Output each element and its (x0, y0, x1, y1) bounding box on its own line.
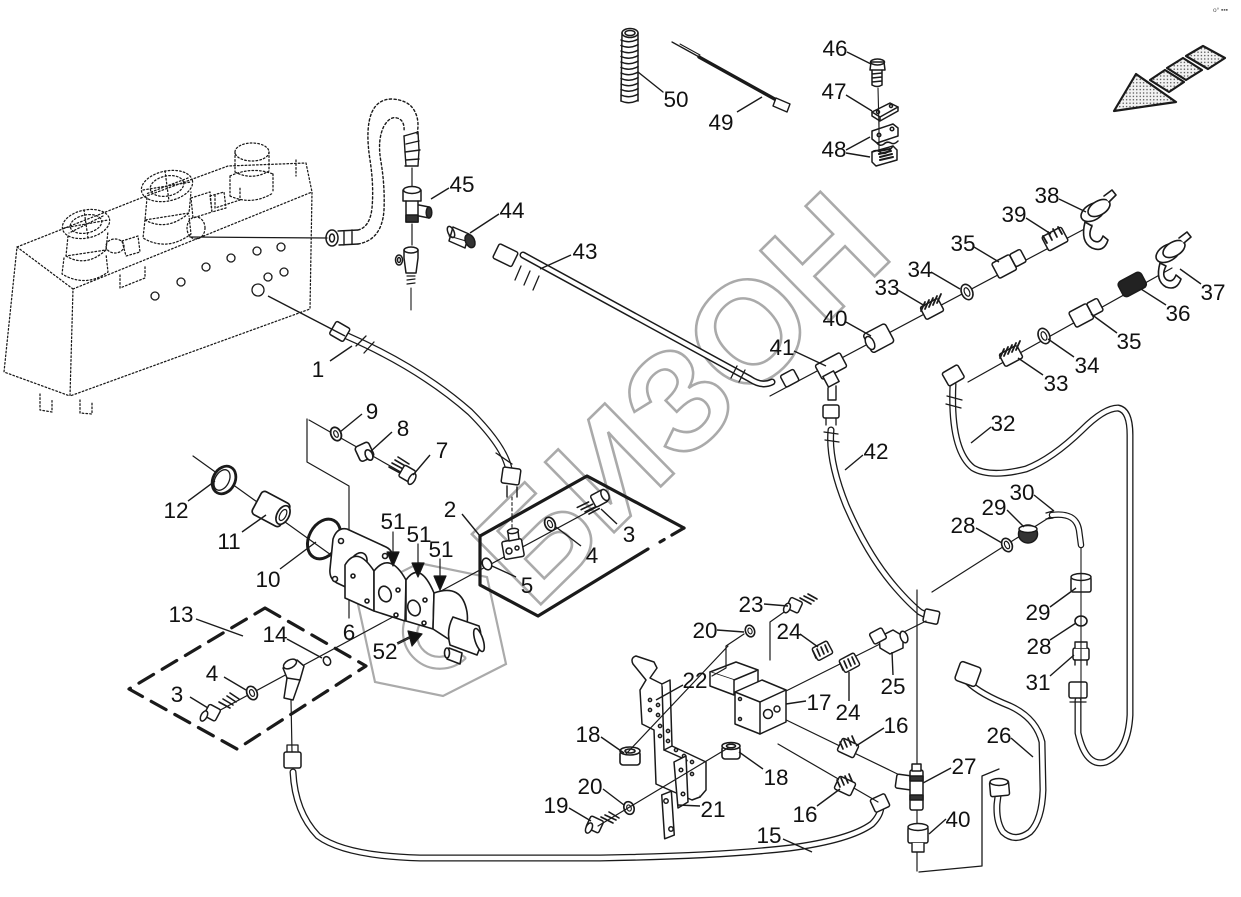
axis 19-20b-21 (598, 748, 728, 826)
svg-text:38: 38 (1034, 183, 1059, 208)
svg-text:1: 1 (312, 357, 325, 382)
svg-text:32: 32 (990, 411, 1015, 436)
hose 15 core (293, 772, 881, 858)
fitting 24b (839, 653, 861, 673)
washer 20a (744, 624, 757, 638)
leader polyline 20a to block (712, 634, 744, 676)
elbow 25 (869, 627, 909, 654)
washer 34 upper (959, 282, 976, 301)
svg-text:21: 21 (700, 797, 725, 822)
axis 28a-29a-30 (932, 517, 1050, 592)
hose 26 core (968, 682, 1043, 838)
part 50 spiral wrap (621, 29, 638, 103)
svg-text:15: 15 (756, 823, 781, 848)
nut 18a (620, 747, 640, 765)
nut 35 lower (1068, 298, 1103, 328)
svg-text:31: 31 (1025, 670, 1050, 695)
o-ring 5 (480, 557, 493, 572)
svg-text:16: 16 (792, 802, 817, 827)
hose 42 core (831, 430, 928, 616)
clamp 48 upper (872, 124, 898, 145)
plate 47 (872, 103, 898, 121)
svg-text:35: 35 (950, 231, 975, 256)
tee fitting 45 (403, 187, 432, 223)
svg-text:5: 5 (521, 573, 534, 598)
hose 43 outline (523, 255, 772, 384)
hose 42 top collar (824, 432, 839, 442)
chain axis B block17 to tee27 (778, 716, 914, 782)
svg-text:33: 33 (874, 275, 899, 300)
svg-text:41: 41 (769, 335, 794, 360)
svg-text:10: 10 (255, 567, 280, 592)
svg-text:18: 18 (763, 765, 788, 790)
fitting 24a (812, 641, 834, 661)
svg-text:3: 3 (623, 522, 636, 547)
svg-text:52: 52 (372, 639, 397, 664)
svg-text:26: 26 (986, 723, 1011, 748)
o-ring 4a (543, 516, 558, 533)
washer 4b (245, 685, 260, 702)
fitting 44 (446, 225, 477, 249)
hose 15 outline (293, 772, 881, 858)
leader line from valve to fitting (190, 237, 327, 238)
link line tee to lower fitting (411, 224, 413, 245)
tank front face bolts (151, 243, 288, 300)
chain axis C to hose15 fitting (778, 744, 878, 802)
o-ring 10 large (301, 513, 347, 564)
svg-text:48: 48 (821, 137, 846, 162)
part 49 cable tie (672, 42, 790, 112)
link elbow to hose15 fitting (291, 700, 292, 752)
o-ring 9 (329, 426, 344, 443)
svg-text:29: 29 (981, 495, 1006, 520)
arrow 51c (434, 559, 446, 590)
vertical axis line through tee 27 (916, 590, 918, 871)
svg-text:50: 50 (663, 87, 688, 112)
axis 18a leader (626, 646, 728, 754)
svg-text:39: 39 (1001, 202, 1026, 227)
elbow fitting in box 13 (282, 657, 304, 700)
axis 12-11-10 (193, 456, 352, 570)
svg-text:35: 35 (1116, 329, 1141, 354)
svg-text:49: 49 (708, 110, 733, 135)
svg-text:o° ▪▪▪: o° ▪▪▪ (1213, 6, 1228, 14)
svg-text:7: 7 (436, 438, 449, 463)
hose 26 end nut (989, 779, 1009, 797)
nipple 33 upper (920, 294, 944, 320)
fitting at tank port (326, 230, 338, 246)
svg-text:11: 11 (217, 529, 240, 554)
small fitting below tee 45 (396, 247, 419, 284)
washer 20b (622, 800, 636, 816)
svg-text:47: 47 (821, 79, 846, 104)
hose 30 core (1052, 515, 1081, 545)
svg-text:24: 24 (835, 700, 860, 725)
fitting at tank port hose piece (338, 230, 358, 245)
fitting 16b (834, 774, 856, 796)
box 2 outline (480, 476, 684, 616)
knurled fitting 36 dark (1117, 271, 1148, 298)
hose 32 core (953, 384, 1130, 763)
svg-text:2: 2 (444, 497, 457, 522)
svg-text:40: 40 (945, 807, 970, 832)
hose 32 outline (953, 384, 1130, 763)
svg-text:19: 19 (543, 793, 568, 818)
svg-text:13: 13 (168, 602, 193, 627)
svg-text:43: 43 (572, 239, 597, 264)
lower fitting chain axis (968, 268, 1172, 382)
svg-text:51: 51 (428, 537, 453, 562)
svg-text:3: 3 (171, 682, 184, 707)
watermark text БИЗОН (444, 164, 918, 633)
bolt 46 axis line (878, 88, 879, 128)
washer 28a (1000, 537, 1015, 554)
suction hose end piece (404, 132, 420, 166)
fitting 16a (837, 736, 859, 758)
svg-text:44: 44 (499, 198, 524, 223)
nut 18b (722, 743, 740, 760)
hose 43 core (523, 255, 772, 384)
svg-text:45: 45 (449, 172, 474, 197)
hose 15 right fitting (870, 793, 890, 812)
axis 47-48 (878, 120, 880, 150)
svg-text:33: 33 (1043, 371, 1068, 396)
svg-text:40: 40 (822, 306, 847, 331)
fitting 39 (1042, 227, 1069, 251)
tank outline (phantom dotted box) (4, 160, 312, 414)
watermark logo hexagon (356, 563, 506, 696)
nipple 33 lower (999, 341, 1023, 367)
o-ring 12 (207, 462, 240, 498)
hose 26 top nut (954, 661, 982, 687)
svg-text:36: 36 (1165, 301, 1190, 326)
svg-text:51: 51 (380, 509, 405, 534)
chain axis A block17 to hose42 end (776, 621, 926, 696)
washer 34 lower (1036, 326, 1053, 345)
bracket 22 lower flange (674, 756, 688, 808)
svg-text:12: 12 (163, 498, 188, 523)
leader lines (188, 52, 1201, 852)
o-ring 14 (322, 655, 332, 666)
leader 50 (638, 72, 663, 92)
axis 29b-31 vertical (1080, 545, 1082, 700)
dashed link hose1 to valve 2 (511, 497, 513, 528)
clip 37 (1153, 232, 1191, 288)
pump body sections (345, 556, 487, 664)
hose 1 bottom fitting (496, 453, 521, 497)
fitting below tee 41 (823, 405, 839, 425)
link line hose to tee 45 (411, 168, 413, 186)
spacer 8 (354, 441, 374, 462)
valve part in box 2 (502, 528, 525, 560)
svg-text:24: 24 (776, 619, 801, 644)
hose 30 tip (1046, 511, 1053, 519)
elbow hose43-tee41 (780, 369, 799, 388)
hose 1 top fitting (329, 321, 374, 353)
svg-text:34: 34 (907, 257, 932, 282)
block 17 (710, 662, 786, 734)
bolt 19 (584, 812, 619, 834)
svg-text:23: 23 (738, 592, 763, 617)
arrow 51a (387, 532, 399, 566)
bolt 7 (389, 457, 418, 486)
dotted suction hose tank to tee 45 (358, 99, 418, 244)
tank filler cap (230, 143, 273, 200)
washer 28b (1075, 616, 1087, 626)
nut 40 upper (863, 323, 895, 353)
svg-text:28: 28 (1026, 634, 1051, 659)
pump flange (330, 529, 393, 599)
hose 42 outline (831, 430, 928, 616)
hose 43 end fitting (493, 243, 745, 382)
bolt 23 (782, 594, 817, 614)
svg-text:20: 20 (692, 618, 717, 643)
svg-text:18: 18 (575, 722, 600, 747)
fitting 31 (1073, 642, 1089, 665)
svg-text:27: 27 (951, 754, 976, 779)
clip 38 (1078, 190, 1116, 249)
bracket polyline for 6 (307, 419, 349, 618)
bushing 11 (251, 490, 293, 528)
fitting 40b (908, 824, 928, 853)
bolt 3a (577, 488, 611, 515)
svg-text:16: 16 (883, 713, 908, 738)
clamp 48 lower (872, 146, 897, 166)
svg-text:22: 22 (682, 668, 707, 693)
svg-text:34: 34 (1074, 353, 1099, 378)
svg-text:20: 20 (577, 774, 602, 799)
hose 42 end fitting (923, 609, 940, 625)
svg-text:46: 46 (822, 36, 847, 61)
svg-text:42: 42 (863, 439, 888, 464)
svg-text:8: 8 (397, 416, 410, 441)
nut 29b (1071, 574, 1091, 593)
hose 1 outline (347, 336, 509, 470)
arrow 51b (412, 544, 424, 577)
hose 30 outline (1052, 515, 1081, 545)
bracket 22 (632, 656, 706, 800)
hose 26 outline (968, 682, 1043, 838)
svg-text:29: 29 (1025, 600, 1050, 625)
hose 32 lower-end fitting (1069, 682, 1087, 702)
bolt 3b (199, 693, 239, 722)
svg-text:30: 30 (1009, 480, 1034, 505)
svg-text:28: 28 (950, 513, 975, 538)
dashed box 13 (129, 608, 366, 749)
svg-text:4: 4 (586, 543, 599, 568)
leader polyline 23 to block (770, 610, 787, 660)
axis 9-8-7 (309, 420, 415, 480)
svg-text:25: 25 (880, 674, 905, 699)
tank valve 1 (60, 205, 140, 280)
tee 27 (895, 764, 923, 810)
axis line below fitting (410, 288, 412, 310)
nut 35 upper (991, 249, 1026, 279)
hose 32 top fitting (942, 364, 965, 408)
tank valve 2 (138, 166, 226, 244)
strap 21 (656, 790, 681, 840)
svg-text:4: 4 (206, 661, 219, 686)
grouping polyline near 26 end (919, 769, 999, 872)
nut 29a dark (1019, 525, 1038, 543)
svg-text:9: 9 (366, 399, 379, 424)
tee 41 (815, 352, 847, 400)
arrow 52 (398, 631, 422, 646)
hose 1 core (347, 336, 509, 470)
svg-text:17: 17 (806, 690, 831, 715)
bolt 46 (870, 59, 885, 87)
upper fitting chain axis (770, 225, 1092, 396)
svg-text:6: 6 (343, 620, 356, 645)
svg-text:37: 37 (1200, 280, 1225, 305)
hose 15 left fitting (284, 745, 301, 768)
main exploded axis through pump (213, 502, 606, 714)
svg-text:14: 14 (262, 622, 287, 647)
